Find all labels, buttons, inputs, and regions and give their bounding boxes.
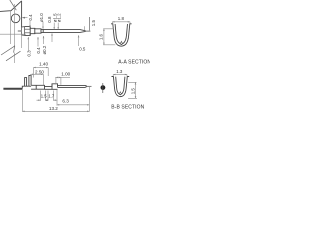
svg-text:1.8: 1.8: [118, 16, 125, 21]
svg-text:ø0.2: ø0.2: [42, 45, 47, 54]
svg-text:6.3: 6.3: [62, 98, 69, 103]
svg-text:0.4: 0.4: [36, 47, 41, 54]
svg-text:1.6: 1.6: [98, 33, 103, 40]
svg-text:1.40: 1.40: [39, 62, 48, 67]
svg-text:0.5: 0.5: [79, 47, 86, 52]
svg-text:1.7: 1.7: [48, 94, 54, 99]
svg-text:2.50: 2.50: [35, 70, 44, 75]
svg-text:1.5: 1.5: [41, 94, 47, 99]
svg-text:ø1.2: ø1.2: [57, 13, 62, 22]
svg-text:0.4: 0.4: [28, 14, 33, 21]
svg-text:ø1.0: ø1.0: [39, 13, 44, 22]
svg-text:13.2: 13.2: [49, 106, 58, 111]
svg-text:1.3: 1.3: [116, 69, 123, 74]
svg-text:A-A SECTION: A-A SECTION: [118, 60, 150, 66]
svg-text:1.00: 1.00: [61, 71, 70, 76]
svg-text:B-B SECTION: B-B SECTION: [111, 105, 144, 111]
svg-text:1.5: 1.5: [91, 20, 96, 27]
svg-text:0.3: 0.3: [26, 50, 31, 57]
svg-text:0.8: 0.8: [47, 16, 52, 23]
svg-text:1.5: 1.5: [130, 88, 135, 95]
